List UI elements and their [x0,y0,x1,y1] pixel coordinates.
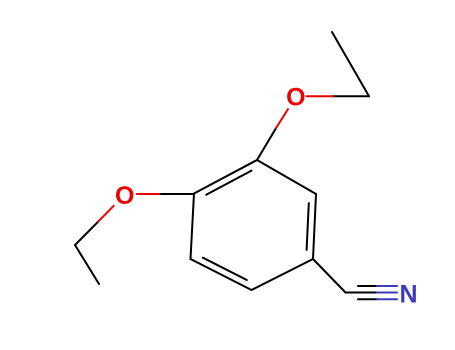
nitrile center line black half [346,292,378,294]
benzene ring [191,160,317,290]
nitrile upper line blue half [377,285,397,287]
bond O1-CH2a black half [332,95,369,97]
bond V5-CH2c [313,259,346,293]
left ethoxy group [75,194,194,284]
bond V2-O2 red half [137,193,159,195]
svg-text:O: O [115,182,134,210]
svg-text:O: O [286,84,305,112]
top ethoxy group [257,32,369,160]
ring edge V1-V2 double inner [206,171,251,195]
bond CH2b-CH3b [75,245,99,284]
ring edge V2-V3 [191,194,195,260]
nitrile lower line black half [358,298,377,300]
ring edge V3-V4 double inner [203,258,247,280]
bond V1-O1 black half [257,128,276,160]
svg-text:N: N [399,281,417,309]
bond CH2a-CH3a [332,32,369,96]
ring edge V1-V2 [194,160,257,194]
ring edge V4-V5 [252,259,314,290]
nitrile lower line blue half [377,298,397,300]
nitrile upper line black half [358,285,377,287]
ring edge V6-V1 [257,160,316,194]
bond V2-O2 black half [159,193,194,195]
ring edge V3-V4 [191,259,252,290]
nitrile center line blue half [377,292,397,294]
ring edge V5-V6 double inner [307,203,309,250]
bond O2-CH2b red half [99,206,114,222]
acetonitrile group [313,259,397,299]
bond O1-CH2a red half [307,95,333,97]
ring edge V5-V6 [313,194,316,259]
bond O2-CH2b black half [75,221,99,245]
bond V1-O1 red half [276,109,288,128]
